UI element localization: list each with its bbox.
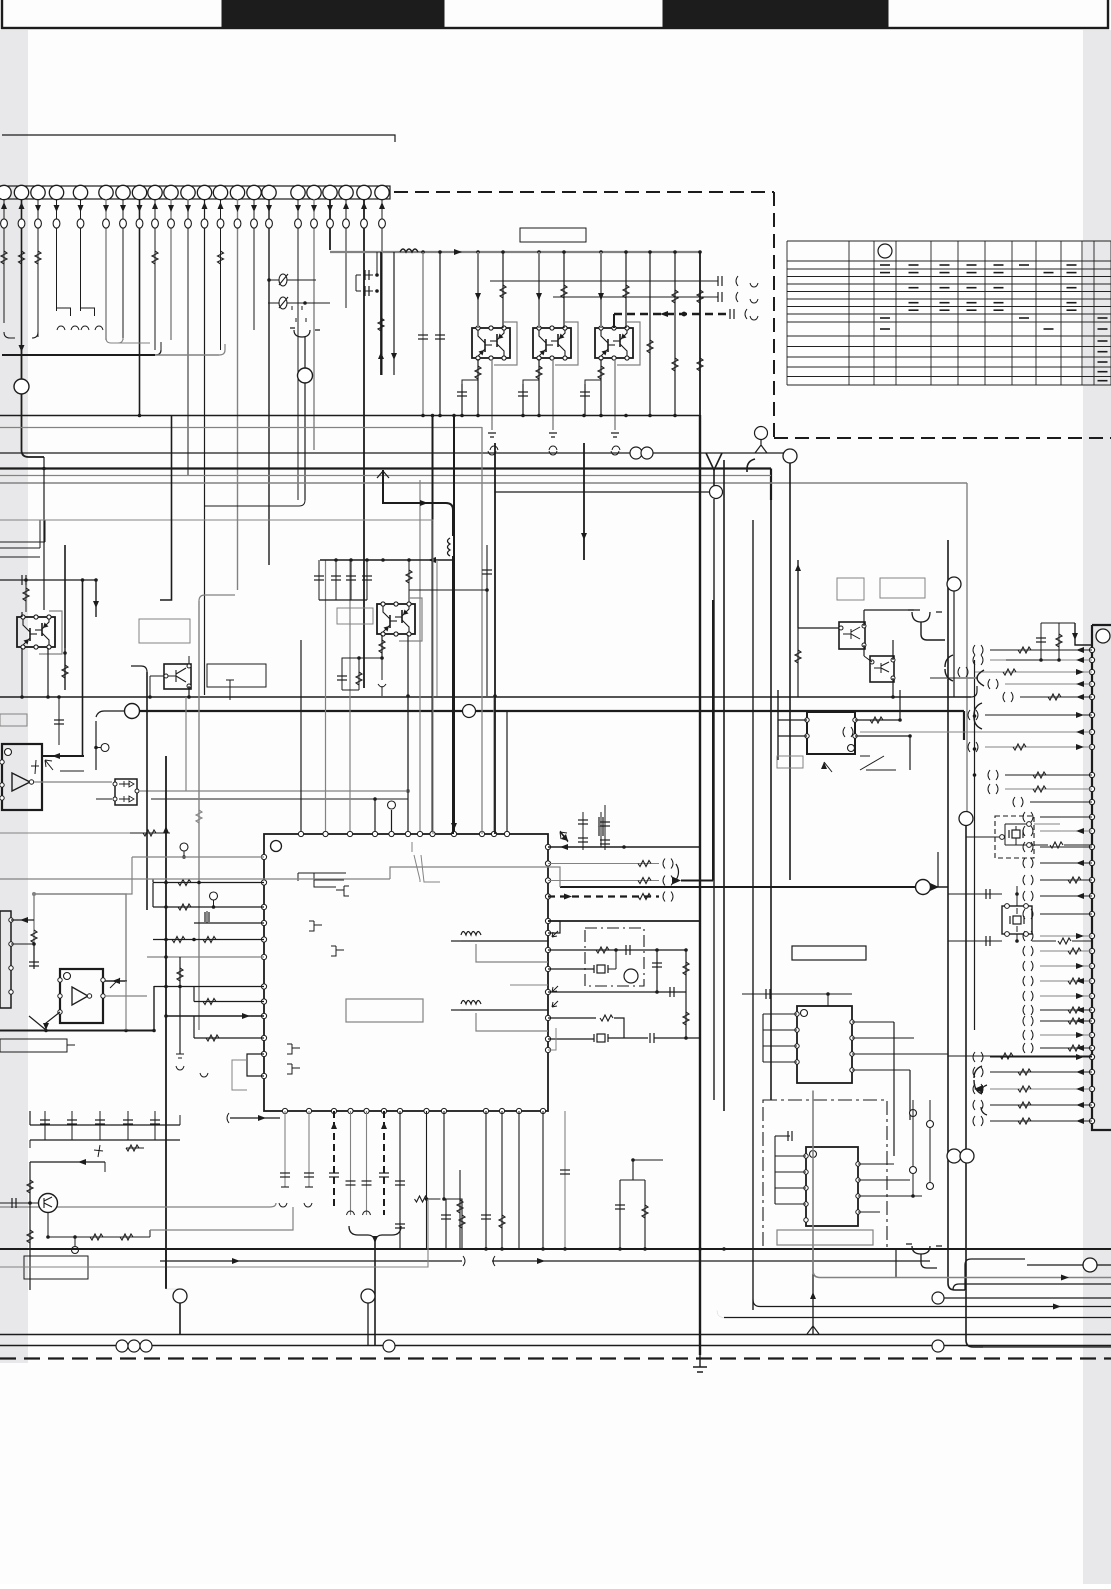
CN2 pins xyxy=(1089,647,1094,652)
heavy link to x=713 xyxy=(681,880,713,882)
resistor drops right of Q3 xyxy=(649,252,651,415)
U10 bottom drop x=519 xyxy=(518,1111,520,1249)
resistor R30 xyxy=(130,832,170,834)
vertical x=790 xyxy=(783,449,797,463)
U5 left wires xyxy=(763,1013,797,1015)
CN2 wire y=831 xyxy=(1040,830,1092,832)
CN2 wire y=1089 xyxy=(990,1088,1092,1090)
wire pin drop x=155 xyxy=(154,199,156,350)
circles on risers xyxy=(173,1289,187,1303)
CN2 wire y=650 xyxy=(990,649,1092,651)
wire pin drop x=106 xyxy=(105,199,107,340)
right gray margin strip xyxy=(1083,30,1111,1584)
label box right-mid xyxy=(792,946,866,960)
wire riser x=454 xyxy=(453,415,455,834)
exit line 1317 xyxy=(724,1317,1111,1319)
riser x=771 long xyxy=(770,500,772,1100)
wire pin drop x=314 xyxy=(313,199,315,450)
resistor ladders right xyxy=(948,1055,1092,1057)
CN2 wire y=981 xyxy=(1040,980,1092,982)
CN2 feed bus x=974 xyxy=(974,660,976,1030)
transistor pair Q2 xyxy=(555,322,578,365)
resistor pairs right of drops xyxy=(459,1170,461,1249)
wire riser x=350 xyxy=(349,560,351,834)
bus y=415 xyxy=(0,415,700,417)
exit line 1306 xyxy=(760,1306,1111,1308)
wires around Q7/Q8 xyxy=(798,627,839,629)
vertical x=82 riser xyxy=(82,580,84,756)
label box mid-left B xyxy=(207,664,266,687)
CN2 wire y=1072 xyxy=(990,1071,1092,1073)
pin wire 1018 crystal X2 xyxy=(548,1017,596,1019)
U10 bottom drop x=366.5 xyxy=(366,1111,368,1215)
CN2 wire y=951 xyxy=(1040,950,1092,952)
U10 internal route xyxy=(412,842,420,882)
CN2 wire y=684 xyxy=(1005,683,1092,685)
wire pin drop x=21.5 xyxy=(21,199,23,345)
riser x=482 xyxy=(481,560,483,834)
riser x=495 heavy xyxy=(494,443,496,834)
test point circle TP1 xyxy=(21,345,23,379)
wire pin drop x=364 xyxy=(363,199,365,688)
riser x=154 segment xyxy=(153,986,155,1030)
U10 bottom drop x=285 xyxy=(284,1111,286,1187)
IC U5 box xyxy=(797,1006,852,1083)
transistor Q9 (circled) xyxy=(39,1194,58,1213)
transistor pair Q4 xyxy=(39,611,62,654)
CN2 wire y=847 xyxy=(1040,846,1092,848)
arrow slash at U4 xyxy=(824,762,832,772)
U10 bottom drop x=502 xyxy=(501,1111,503,1249)
signal routing table xyxy=(787,241,1111,385)
transistor Q7 xyxy=(839,622,865,649)
exit line 1298 xyxy=(932,1292,944,1304)
x=938 short xyxy=(937,852,939,887)
bus from pin 921 xyxy=(548,920,700,922)
wires near XM2 xyxy=(948,893,1002,895)
U10 right pins xyxy=(545,844,550,849)
wire pin drop x=382 xyxy=(381,199,383,375)
vertical x=65 riser xyxy=(64,545,66,648)
bus y=697 xyxy=(0,696,971,698)
inductor L2 xyxy=(446,503,453,536)
wire pin drop x=171 xyxy=(170,199,172,340)
resistors on drops xyxy=(1,251,7,264)
riser x=896 xyxy=(895,1249,897,1277)
small circle node xyxy=(101,744,109,752)
transistor pair Q3 xyxy=(617,322,640,365)
Y junction xyxy=(906,1244,942,1254)
IC U10 body xyxy=(264,834,548,1111)
CN2 wire y=896 xyxy=(1040,895,1092,897)
diode D1 xyxy=(268,279,316,281)
cap bottom row x=72 xyxy=(71,1111,73,1140)
x=948 riser xyxy=(947,540,949,1283)
wire riser x=391.5 xyxy=(391,810,393,834)
strip wires xyxy=(11,919,34,921)
CN2 wire y=914 xyxy=(1040,913,1092,915)
wire riser x=301 xyxy=(300,640,302,834)
transistor pair Q6 xyxy=(399,598,422,641)
U10 bottom drop x=400 xyxy=(399,1111,401,1249)
wire pin drop x=80.5 xyxy=(80,199,82,311)
Q6 lower nets xyxy=(381,635,383,658)
U10 bottom drop x=543 xyxy=(542,1111,544,1249)
CN2 wire y=817 xyxy=(1040,816,1092,818)
resistor under Q4 xyxy=(64,648,66,690)
ground at bottom of x=700 xyxy=(693,1355,707,1372)
wire pin drop x=220.5 xyxy=(220,199,222,350)
U10 bottom drop x=334 xyxy=(333,1111,335,1207)
riser x=186 xyxy=(185,697,187,791)
wire riser x=494 xyxy=(493,697,495,834)
label box Q6 xyxy=(337,608,373,624)
label box below U4 xyxy=(777,756,803,768)
U10 bottom pins xyxy=(282,1108,287,1113)
cap bottom row x=100 xyxy=(99,1111,101,1140)
wire pin drop x=254 xyxy=(253,199,255,330)
U4 wires xyxy=(778,719,807,721)
right braces xyxy=(945,655,953,681)
U5 right wires xyxy=(852,1021,894,1023)
CN2 wire y=880 xyxy=(1040,879,1092,881)
pin wire y=857 xyxy=(132,856,264,858)
pi stubs xyxy=(292,306,302,310)
wire riser x=325.5 xyxy=(325,560,327,834)
bus y=453 xyxy=(0,452,790,454)
right connector CN2 xyxy=(1092,625,1111,1130)
circle TP4 xyxy=(210,892,218,900)
Q4 emitter wires xyxy=(21,648,23,697)
riser x=147 xyxy=(146,672,148,910)
wire pin drop x=188 xyxy=(187,199,189,476)
table header circle mark xyxy=(878,244,892,258)
U10 inner label box xyxy=(346,999,423,1022)
cap stub x=126 xyxy=(125,981,127,1030)
U10 top pins xyxy=(298,831,303,836)
U3 feedback loop xyxy=(34,894,126,981)
riser x=433 gray pair xyxy=(0,520,433,834)
wavy mark 2 xyxy=(461,1001,481,1005)
heavy vertical x=700 xyxy=(699,415,701,1355)
wire pin drop x=139.5 xyxy=(139,199,141,416)
U10 bottom drop x=444 xyxy=(443,1111,445,1199)
pin wire y=986 xyxy=(154,986,264,988)
Q9 bias net xyxy=(48,1236,150,1238)
bus y=468 heavy xyxy=(0,467,771,469)
cup bracket right xyxy=(908,610,942,622)
dashed drive line xyxy=(614,313,726,316)
verticals right of M2 xyxy=(912,1100,914,1166)
pin wire y=882 xyxy=(153,882,264,884)
riser x=166 xyxy=(165,756,167,1288)
arrows mid xyxy=(230,1117,280,1119)
cap bank caps xyxy=(318,560,320,600)
heavy drive path to Q6 xyxy=(383,470,446,503)
U2 pins xyxy=(0,760,4,764)
left riser x=171 xyxy=(160,416,172,600)
slash arrows at right pins xyxy=(552,931,558,937)
label box long xyxy=(0,1039,67,1052)
bus y=475 gray xyxy=(0,475,771,477)
cap bottom row x=45 xyxy=(44,1111,46,1140)
U10 bottom drop x=486 xyxy=(485,1111,487,1249)
pin wire y=939 xyxy=(153,939,264,941)
label stub left xyxy=(0,714,27,726)
exit line 1277 xyxy=(820,1277,1111,1279)
hash ties xyxy=(31,760,39,774)
wires upper-left cluster xyxy=(0,541,45,543)
riser x=584 heavy xyxy=(583,443,585,560)
CN2 wire y=1048 xyxy=(1040,1047,1092,1049)
inductor L1 xyxy=(400,249,418,252)
pin wire y=907 xyxy=(153,906,264,908)
CN2 wire y=697 xyxy=(1020,696,1092,698)
dashed pin wire 896 xyxy=(548,895,659,897)
cup junction xyxy=(290,328,320,337)
U6 wires left xyxy=(775,1155,806,1157)
caps above pin 847 xyxy=(600,820,602,847)
resistor to Q6 xyxy=(408,560,410,604)
left edge connector strip xyxy=(0,911,11,1008)
dash-dot module M2 xyxy=(763,1100,887,1249)
dashed boundary right edge xyxy=(773,192,775,438)
wire y=492 xyxy=(495,491,709,493)
CN2 wire y=1105 xyxy=(990,1104,1092,1106)
bus gather bottom-left xyxy=(4,332,15,338)
cap bank bus y560 xyxy=(320,559,453,561)
table dash marks xyxy=(880,265,1108,381)
dashed bottom boundary xyxy=(0,1357,1111,1359)
wire pin drop x=204.5 xyxy=(204,199,206,695)
transistor pair Q1 xyxy=(494,322,517,365)
wire riser x=482 xyxy=(481,427,483,834)
riser x=453 to IC xyxy=(452,560,454,834)
wire riser x=507 xyxy=(506,711,508,834)
U2 triangle xyxy=(12,773,30,791)
hash mark xyxy=(94,1145,103,1157)
circle TP3 xyxy=(180,843,188,851)
header tab 2 (black) xyxy=(663,0,888,28)
bus y=483 gray xyxy=(0,482,967,484)
U6 wires right xyxy=(858,1163,894,1165)
pin wire y=957 xyxy=(147,956,264,958)
transistor Q8 xyxy=(870,656,894,682)
CN2 wire y=966 xyxy=(1040,965,1092,967)
wire pin drop x=346 xyxy=(345,199,347,308)
CN2 wire y=732 xyxy=(860,731,1092,733)
wire riser x=432.5 xyxy=(432,415,434,834)
CN2 wire y=936 xyxy=(1040,935,1092,937)
wire riser x=420 xyxy=(419,480,421,834)
caps C10/C11 top middle xyxy=(355,275,357,291)
label box in M2 xyxy=(777,1230,873,1245)
U10 bottom drop x=309 xyxy=(308,1111,310,1187)
diode D2 xyxy=(268,302,330,304)
junction circles under Q rows xyxy=(630,447,642,459)
CN2 wire y=747 xyxy=(985,746,1092,748)
gray bus into hooks xyxy=(0,1203,276,1207)
main gray feed bus y=252 xyxy=(330,251,700,253)
U10 bottom drop x=426.5 xyxy=(426,1111,428,1249)
cap cluster x=590-630 xyxy=(582,812,584,850)
gray feed right xyxy=(0,878,390,880)
pin wire y=923 cap stub xyxy=(194,922,264,924)
arrow stub mid xyxy=(524,984,548,986)
wires around Q2 xyxy=(538,252,540,328)
test point circle TP2 xyxy=(298,368,313,383)
CN2 wire y=1021 xyxy=(1040,1020,1092,1022)
dashed boundary lower edge xyxy=(774,437,1111,439)
crystal module XM2 xyxy=(1002,906,1032,934)
heavy line y=887 xyxy=(560,886,916,888)
connector CN1 body xyxy=(0,186,390,199)
wire riser x=375 xyxy=(374,799,376,834)
CN2 wire y=775 xyxy=(1005,774,1092,776)
bus y=427 gray xyxy=(0,427,482,429)
CN2 wire y=660 xyxy=(990,659,1092,661)
CN2 wire y=996 xyxy=(1040,995,1092,997)
lines bottom right exits xyxy=(965,1259,1025,1265)
CN2 wire y=672 xyxy=(975,671,1092,673)
op-amp U2 box xyxy=(2,744,42,810)
caps near x=620-660 xyxy=(619,1180,621,1249)
exit line 1347 xyxy=(983,1346,1111,1348)
heavy gray bus into brace xyxy=(930,677,978,679)
IC U6 box xyxy=(806,1147,858,1226)
hooks on bus y457 xyxy=(490,446,498,450)
op-amp U3 box xyxy=(60,969,103,1023)
header bar outline xyxy=(2,0,1108,28)
wire drops under bus xyxy=(380,252,382,375)
node: L-stubs xyxy=(57,308,71,316)
resistor stub x=180 xyxy=(179,957,181,1054)
x=967 riser xyxy=(959,812,973,826)
cap into left rail xyxy=(0,579,96,581)
wire pin drop x=4 xyxy=(3,199,5,323)
cap feed U5 xyxy=(742,993,852,995)
mid connectors around x=230 y=690 xyxy=(226,680,234,694)
pin wire 992 xyxy=(548,991,686,993)
bus y=711 heavy xyxy=(125,704,140,719)
arrow into U2 xyxy=(42,755,84,757)
label box bottom-left xyxy=(24,1256,88,1279)
left gray margin strip xyxy=(0,30,28,1363)
sense lines to dashed box edge xyxy=(490,280,718,282)
hooks under drops xyxy=(279,1203,287,1207)
line y=1261 xyxy=(160,1260,462,1262)
riser x=813 xyxy=(812,1249,814,1334)
crystal X2 xyxy=(593,1034,595,1042)
pin wires y=1054 y=1076 xyxy=(247,1054,264,1076)
cap bottom row x=128 xyxy=(127,1111,129,1140)
U4 box xyxy=(807,712,855,754)
pin wires 863/880 group xyxy=(548,863,659,865)
wire: top rule xyxy=(2,135,395,142)
brace and node xyxy=(676,864,679,880)
CN2 wire y=715 xyxy=(985,714,1092,716)
wire pin drop x=123 xyxy=(122,199,124,340)
CN2 wire y=1121 xyxy=(990,1120,1092,1122)
exit line 1287 xyxy=(953,1284,1111,1290)
double bus bottom xyxy=(0,1334,1111,1336)
pin 1050 stub xyxy=(548,1028,556,1050)
pin wire 950 caps xyxy=(548,949,686,951)
riser to dashed corner xyxy=(755,427,768,440)
circle right TP5 xyxy=(947,577,961,591)
small circles right of M2 xyxy=(910,1110,917,1117)
U10 left pins xyxy=(261,854,266,859)
CN2 wire y=1035 xyxy=(1040,1034,1092,1036)
pin wire y=1001 xyxy=(194,1001,264,1003)
label box mid-left A xyxy=(139,619,190,643)
wire pin drop x=330 xyxy=(329,199,331,250)
CN2 wire y=1010 xyxy=(1040,1009,1092,1011)
pin wire y=1038 xyxy=(194,1037,264,1039)
cap/res stub pair near CN2 top xyxy=(1040,623,1042,660)
U10 bottom drop x=384 xyxy=(383,1111,385,1215)
arrow slash into right pin 847 xyxy=(560,831,568,841)
heavy vertical x=714 xyxy=(710,486,723,499)
riser x=894/910 xyxy=(893,1022,895,1156)
wires around Q3 xyxy=(600,252,602,328)
cap bottom row x=155 xyxy=(154,1111,156,1140)
resistor R20 xyxy=(25,580,27,612)
vertical x=724 xyxy=(723,460,725,1111)
transistor Q5 xyxy=(164,664,191,689)
label boxes right mid xyxy=(837,578,864,600)
CN2 wire y=1057 xyxy=(990,1056,1092,1058)
wire pin drop x=38 xyxy=(37,199,39,337)
label box top-middle xyxy=(520,228,586,242)
wire pin drop x=269 xyxy=(268,199,270,565)
header tab 1 (black) xyxy=(222,0,444,28)
wire y=799 xyxy=(151,798,408,800)
wire pin drop x=56.5 xyxy=(56,199,58,311)
left net with transistor Q9 xyxy=(29,1162,31,1290)
pin wire y=1016 arrow xyxy=(166,1015,264,1017)
arrow into U3 xyxy=(105,980,127,982)
CN2 wire y=863 xyxy=(1040,862,1092,864)
big gather brace xyxy=(349,1226,401,1240)
line y=1267 gray xyxy=(0,1199,428,1267)
wires around Q1 xyxy=(477,252,479,328)
oscillator X1 dash-dot box xyxy=(585,928,644,986)
cap row left xyxy=(30,1124,180,1126)
feedthrough beads xyxy=(1,219,386,228)
wire pin drop x=298 xyxy=(297,199,299,500)
connector CN1 pins xyxy=(0,185,389,199)
DM1 wires xyxy=(34,781,112,783)
riser x=565 xyxy=(564,1111,566,1249)
Q5 connections xyxy=(150,675,164,677)
dashed boundary top edge xyxy=(394,191,774,193)
wavy mark 1 xyxy=(461,932,481,936)
CN2 wire y=789 xyxy=(1005,788,1092,790)
heavy bus y=1030 xyxy=(0,1030,154,1032)
U10 bottom drop x=350.5 xyxy=(350,1111,352,1215)
diode module DM1 xyxy=(115,779,137,805)
bead circles on bus xyxy=(116,1340,128,1352)
riser x=199 xyxy=(198,601,200,1030)
vertical x=753 xyxy=(752,520,754,1310)
U10 inner marks xyxy=(298,873,346,887)
left riser from bus xyxy=(43,457,45,610)
wire riser x=408 xyxy=(407,697,409,834)
bus y=1249 xyxy=(0,1248,1111,1250)
cap C20 xyxy=(58,697,60,745)
crystal module XM1 dashed xyxy=(995,816,1034,858)
